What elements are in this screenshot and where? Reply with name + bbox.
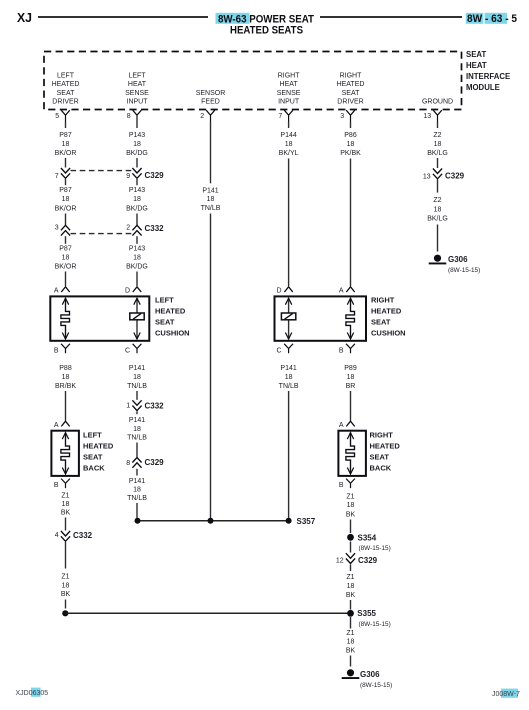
svg-text:Z1: Z1 [61,573,69,580]
svg-text:P87: P87 [59,187,72,194]
svg-text:18: 18 [133,426,141,433]
svg-text:S357: S357 [297,517,316,526]
svg-text:18: 18 [207,196,215,203]
wire Z1 18 BK to ground [346,617,356,667]
module terminal label SENSOR FEED [196,90,226,106]
svg-text:A: A [339,422,344,429]
module connector pin 8 [127,110,142,121]
svg-text:HEAT: HEAT [128,81,147,88]
svg-text:C332: C332 [145,401,165,410]
svg-text:18: 18 [347,639,355,646]
svg-text:8: 8 [127,113,131,120]
wire P88 18 BR/BK [55,365,76,420]
right cushion pin D [277,287,293,295]
svg-text:B: B [339,482,344,489]
svg-text:HEATED: HEATED [52,81,80,88]
page ref highlight 8W [466,13,484,24]
svg-text:D: D [125,288,130,295]
svg-text:BR/BK: BR/BK [55,383,76,390]
svg-text:4: 4 [55,532,59,539]
svg-text:LEFT: LEFT [128,73,146,80]
svg-text:18: 18 [62,196,70,203]
svg-text:P144: P144 [280,132,296,139]
junction S357 left [135,518,141,524]
svg-text:P89: P89 [344,365,357,372]
wire P143 18 BK/DG to seat cushion pin D [126,236,148,286]
svg-text:P87: P87 [59,246,72,253]
svg-text:BK: BK [346,647,356,654]
svg-text:18: 18 [62,255,70,262]
svg-text:BK/DG: BK/DG [126,264,148,271]
left seat back pin B [54,479,70,489]
svg-text:BK/OR: BK/OR [55,264,77,271]
svg-text:18: 18 [434,141,442,148]
right seat back pin B [339,479,355,489]
svg-text:RIGHT: RIGHT [278,73,301,80]
connector C332 pin 3 [55,225,70,236]
page label XJ [17,10,32,25]
left cushion pin B [54,344,70,355]
module name SEAT HEAT INTERFACE MODULE [466,50,510,92]
svg-text:P87: P87 [59,132,72,139]
svg-text:18: 18 [62,501,70,508]
svg-text:18: 18 [347,583,355,590]
svg-text:Z1: Z1 [346,574,354,581]
wire Z1 18 BK to C332 [61,493,71,531]
svg-text:SEAT: SEAT [342,90,360,97]
right cushion thermostat [281,298,295,339]
wire P143 18 BK/DG to C332 [126,179,148,225]
module terminal label RIGHT HEAT SENSE INPUT [277,73,301,106]
svg-text:(8W-15-15): (8W-15-15) [448,267,480,274]
svg-text:18: 18 [347,374,355,381]
svg-text:18: 18 [62,583,70,590]
title POWER SEAT [218,14,314,26]
svg-text:HEATED: HEATED [371,306,402,315]
wire P141 18 TN/LB from cushion pin C [127,365,147,400]
right heated seat back box [338,431,366,476]
svg-text:HEATED SEATS: HEATED SEATS [230,25,303,37]
left cushion heating element [61,298,70,339]
splice S354 reference 8W-15-15 [359,545,391,552]
svg-text:SENSOR: SENSOR [196,90,226,97]
junction S357 right [286,518,292,524]
left cushion thermostat [130,298,144,339]
dashed link C329 [71,170,133,172]
wire P86 18 PK/BK from pin 3 [340,122,361,287]
wire P141 18 TN/LB sensor feed [201,122,221,519]
label RIGHT HEATED SEAT BACK [370,431,401,473]
svg-text:DRIVER: DRIVER [52,99,78,106]
svg-text:BK: BK [346,512,356,519]
svg-text:P141: P141 [202,187,218,194]
connector C329 pin 7 [55,168,70,180]
svg-text:INPUT: INPUT [127,99,149,106]
svg-text:7: 7 [55,173,59,180]
label RIGHT HEATED SEAT CUSHION [371,295,406,337]
label LEFT HEATED SEAT BACK [83,431,114,473]
svg-text:TN/LB: TN/LB [279,383,299,390]
svg-text:9: 9 [126,173,130,180]
svg-text:13: 13 [423,113,431,120]
svg-text:S355: S355 [357,609,376,618]
seat heat interface module dashed outline [44,52,462,110]
wire Z2 18 BK/LG from pin 13 [427,122,448,169]
svg-text:LEFT: LEFT [83,431,102,440]
svg-text:FEED: FEED [201,99,220,106]
svg-text:TN/LB: TN/LB [201,205,221,212]
svg-text:18: 18 [347,502,355,509]
svg-text:18: 18 [285,141,293,148]
module connector pin 7 [278,110,293,121]
right seat back heating element [346,433,355,474]
svg-text:BK: BK [61,591,71,598]
connector C329 pin 13 [423,169,465,181]
svg-text:RIGHT: RIGHT [340,73,363,80]
svg-text:18: 18 [62,374,70,381]
svg-text:18: 18 [62,141,70,148]
svg-text:(8W-15-15): (8W-15-15) [359,545,391,552]
footer sheet number J008W-7 [492,691,520,698]
svg-text:18: 18 [285,374,293,381]
svg-text:8W - 63 - 5: 8W - 63 - 5 [467,13,517,25]
wire P144 18 BK/YL from pin 7 [279,122,299,287]
svg-text:18: 18 [434,207,442,214]
svg-text:RIGHT: RIGHT [370,431,394,440]
right cushion pin B [339,344,355,355]
svg-text:C329: C329 [145,458,165,467]
svg-text:HEATED: HEATED [370,442,401,451]
svg-text:D: D [277,288,282,295]
svg-text:RIGHT: RIGHT [371,295,395,304]
svg-text:BK: BK [61,510,71,517]
module connector pin 3 [340,110,355,121]
svg-text:18: 18 [347,141,355,148]
splice S355 reference 8W-15-15 [359,621,391,628]
svg-text:C332: C332 [145,224,165,233]
wire Z1 18 BK to S355 [346,565,356,610]
svg-text:BACK: BACK [370,464,392,473]
wire Z2 18 BK/LG to ground [427,180,448,252]
label LEFT HEATED SEAT CUSHION [155,295,190,337]
svg-text:XJ: XJ [17,10,32,25]
wire P87 18 BK/OR from pin 5 [55,122,77,168]
svg-text:SEAT: SEAT [155,317,175,326]
svg-text:INTERFACE: INTERFACE [466,72,510,81]
svg-text:SEAT: SEAT [371,317,391,326]
svg-text:Z1: Z1 [346,630,354,637]
splice label S357 [297,517,316,526]
svg-text:3: 3 [340,113,344,120]
svg-text:BK/LG: BK/LG [427,216,448,223]
title highlight 8W-63 [216,13,250,24]
junction at S355 branch [62,610,68,616]
svg-text:CUSHION: CUSHION [371,328,406,337]
dashed link C332 [71,233,133,235]
left seat back pin A [54,421,70,429]
svg-text:G306: G306 [360,670,380,679]
svg-text:(8W-15-15): (8W-15-15) [359,621,391,628]
left cushion pin C [125,344,141,355]
wire P141 18 TN/LB to splice S357 [127,469,147,518]
svg-text:BK/DG: BK/DG [126,150,148,157]
svg-text:TN/LB: TN/LB [127,495,147,502]
svg-text:LEFT: LEFT [155,295,174,304]
svg-text:BK/LG: BK/LG [427,150,448,157]
svg-text:BK/OR: BK/OR [55,150,77,157]
right cushion pin C [277,344,293,355]
svg-text:BK/OR: BK/OR [55,205,77,212]
svg-text:TN/LB: TN/LB [127,435,147,442]
svg-text:18: 18 [133,487,141,494]
svg-text:C329: C329 [358,556,378,565]
splice S355 rail [65,612,350,614]
wire Z1 18 BK to splice [61,542,71,609]
svg-text:A: A [54,288,59,295]
svg-text:HEAT: HEAT [466,61,487,70]
svg-text:BK: BK [346,592,356,599]
connector C332 pin 2 [126,224,164,236]
page ref 8W - 63 - 5 [467,13,517,25]
right heated seat cushion box [275,296,367,340]
svg-text:P88: P88 [59,365,72,372]
junction S357 middle [208,518,214,524]
ground G306 reference 8W-15-15 [448,267,480,274]
svg-text:HEAT: HEAT [280,81,299,88]
svg-text:HEATED: HEATED [337,81,365,88]
svg-text:C: C [125,348,130,355]
footer highlight 8W-7 [501,689,518,698]
wire P87 18 BK/OR to seat cushion pin A [55,236,77,286]
connector C329 pin 8 [126,458,164,468]
svg-text:BK/YL: BK/YL [279,150,299,157]
svg-text:CUSHION: CUSHION [155,328,190,337]
svg-text:B: B [54,482,59,489]
ground G306 (upper) [429,255,468,265]
splice S354 [347,534,377,543]
wire Z1 18 BK to C329 [350,542,352,553]
ground G306 reference 8W-15-15 [360,682,392,689]
module terminal label LEFT HEATED SEAT DRIVER [52,73,80,106]
module connector pin 2 [200,110,215,121]
left seat back heating element [61,433,70,474]
svg-text:S354: S354 [358,534,377,543]
ground G306 (lower) [342,669,380,679]
connector C329 pin 9 [126,168,164,180]
svg-text:Z1: Z1 [346,494,354,501]
svg-text:18: 18 [133,141,141,148]
module terminal label RIGHT HEATED SEAT DRIVER [337,73,365,106]
svg-text:3: 3 [55,225,59,232]
svg-text:LEFT: LEFT [57,73,75,80]
svg-text:P141: P141 [280,365,296,372]
connector C332 pin 1 [126,400,164,410]
svg-text:J008W-7: J008W-7 [492,691,520,698]
svg-text:GROUND: GROUND [422,99,453,106]
svg-text:P141: P141 [129,417,145,424]
svg-text:12: 12 [336,558,344,565]
wire P141 18 TN/LB to C329 [127,412,147,458]
svg-text:INPUT: INPUT [278,99,300,106]
svg-text:8: 8 [126,460,130,467]
svg-text:BACK: BACK [83,464,105,473]
wire P143 18 BK/DG from pin 8 [126,122,148,168]
wire P141 18 TN/LB from right cushion pin C [279,365,299,518]
svg-text:TN/LB: TN/LB [127,383,147,390]
svg-text:A: A [339,288,344,295]
header rule left [38,16,208,18]
svg-text:HEATED: HEATED [83,442,114,451]
left cushion pin A [54,287,70,295]
title HEATED SEATS [230,25,303,37]
svg-text:18: 18 [133,196,141,203]
svg-text:SEAT: SEAT [57,90,75,97]
svg-text:2: 2 [200,113,204,120]
left heated seat cushion box [50,296,149,340]
svg-text:P143: P143 [129,187,145,194]
svg-text:13: 13 [423,174,431,181]
svg-text:P86: P86 [344,132,357,139]
svg-text:BR: BR [346,383,356,390]
right cushion pin A [339,287,355,295]
right seat back pin A [339,421,355,429]
svg-text:1: 1 [126,403,130,410]
splice S355 [347,609,376,618]
svg-text:18: 18 [133,374,141,381]
wire P87 18 BK/OR to C332 [55,179,77,225]
module terminal label GROUND [422,99,453,106]
svg-text:HEATED: HEATED [155,306,186,315]
svg-text:P143: P143 [129,246,145,253]
footer drawing number XJD06305 [16,690,49,697]
module terminal label LEFT HEAT SENSE INPUT [125,73,149,106]
connector C332 pin 4 [55,531,93,542]
svg-text:XJD06305: XJD06305 [16,690,49,697]
svg-text:PK/BK: PK/BK [340,150,361,157]
svg-text:G306: G306 [448,255,468,264]
right cushion heating element [346,298,355,339]
svg-text:C: C [277,348,282,355]
svg-text:SEAT: SEAT [466,50,486,59]
connector C329 pin 12 [336,553,378,565]
svg-text:Z2: Z2 [433,197,441,204]
splice S357 rail [138,520,289,522]
header rule right [320,16,462,18]
svg-text:BK/DG: BK/DG [126,205,148,212]
svg-text:SEAT: SEAT [370,453,390,462]
svg-text:SEAT: SEAT [83,453,103,462]
svg-text:P141: P141 [129,365,145,372]
svg-text:C332: C332 [73,531,93,540]
svg-text:P141: P141 [129,478,145,485]
left heated seat back box [51,431,79,476]
svg-text:Z1: Z1 [61,493,69,500]
svg-text:SENSE: SENSE [277,90,301,97]
svg-text:7: 7 [278,113,282,120]
svg-text:C329: C329 [145,171,165,180]
page ref highlight 63 [485,13,508,24]
svg-text:5: 5 [55,113,59,120]
svg-text:2: 2 [126,225,130,232]
footer highlight 63 [31,688,41,697]
svg-text:B: B [54,348,59,355]
svg-text:DRIVER: DRIVER [337,99,363,106]
svg-text:P143: P143 [129,132,145,139]
wire Z1 18 BK to S354 [346,494,356,534]
svg-text:MODULE: MODULE [466,83,500,92]
wire P89 18 BR [344,365,357,420]
svg-text:A: A [54,422,59,429]
svg-text:(8W-15-15): (8W-15-15) [360,682,392,689]
left cushion pin D [125,287,141,295]
module connector pin 13 [423,110,441,121]
svg-text:Z2: Z2 [433,132,441,139]
svg-text:B: B [339,348,344,355]
module connector pin 5 [55,110,70,121]
svg-text:C329: C329 [445,172,465,181]
svg-text:18: 18 [133,255,141,262]
svg-text:SENSE: SENSE [125,90,149,97]
